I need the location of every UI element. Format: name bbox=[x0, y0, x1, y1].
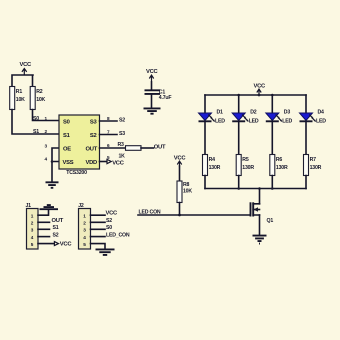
wire J2 pin3 bbox=[91, 228, 106, 230]
svg-text:S0: S0 bbox=[106, 225, 112, 231]
svg-text:S2: S2 bbox=[119, 117, 125, 123]
ground (J1 pin1, flipped) bbox=[40, 205, 59, 209]
svg-text:D4: D4 bbox=[318, 110, 325, 116]
resistor R7 bbox=[304, 155, 322, 176]
wire LED top rail bbox=[205, 94, 306, 96]
wire Q1 source to ground bbox=[259, 215, 261, 235]
svg-text:10K: 10K bbox=[36, 97, 45, 103]
wire col4 mid bbox=[305, 122, 307, 155]
wire col3 top bbox=[271, 95, 273, 113]
resistor R3 bbox=[118, 142, 142, 159]
svg-text:LED CON: LED CON bbox=[139, 210, 161, 216]
svg-text:Q1: Q1 bbox=[267, 218, 274, 224]
IC U1 TCS3200 bbox=[59, 115, 100, 176]
wire IC pin 8 bbox=[100, 120, 118, 122]
svg-text:VSS: VSS bbox=[63, 160, 74, 166]
wire J1 pin4 bbox=[38, 236, 50, 238]
svg-text:S3: S3 bbox=[90, 120, 98, 126]
svg-text:OUT: OUT bbox=[154, 145, 166, 151]
wire IC pin 6 to R3 bbox=[100, 147, 126, 149]
wire col2 top bbox=[238, 95, 240, 113]
capacitor C1 4.7uF bbox=[145, 89, 172, 101]
svg-text:VCC: VCC bbox=[146, 69, 159, 75]
svg-text:130R: 130R bbox=[276, 165, 288, 171]
wire IC pin 7 bbox=[100, 134, 118, 136]
resistor R8 bbox=[177, 181, 192, 203]
svg-text:VDD: VDD bbox=[86, 160, 98, 166]
svg-text:R4: R4 bbox=[209, 157, 216, 163]
svg-text:S2: S2 bbox=[90, 133, 97, 139]
wire J2 pin2 bbox=[91, 221, 106, 223]
wire col3 mid bbox=[271, 122, 273, 155]
svg-text:4.7uF: 4.7uF bbox=[159, 95, 172, 101]
resistor R6 bbox=[270, 155, 288, 176]
svg-text:D2: D2 bbox=[250, 110, 257, 116]
resistor R1 bbox=[10, 87, 25, 110]
power VCC flag (R8) bbox=[174, 156, 187, 167]
svg-text:7: 7 bbox=[107, 129, 110, 134]
svg-text:OE: OE bbox=[63, 147, 71, 153]
junction top rail col2 bbox=[237, 94, 240, 97]
wire J2 pin4 bbox=[91, 236, 106, 238]
wire J1 pin5 to VCC bbox=[38, 243, 54, 245]
wire VCC rail to R1/R2 tops bbox=[12, 75, 33, 87]
wire IC pin 4 VSS to ground bbox=[52, 162, 59, 182]
wire VCC to R8 bbox=[179, 166, 181, 181]
svg-text:VCC: VCC bbox=[174, 156, 187, 162]
svg-text:D1: D1 bbox=[217, 110, 224, 116]
svg-text:R2: R2 bbox=[36, 89, 43, 95]
svg-text:VCC: VCC bbox=[254, 83, 267, 89]
junction bottom rail col3 bbox=[271, 187, 274, 190]
wire col1 bottom bbox=[204, 176, 206, 189]
wire R3 to OUT bbox=[141, 147, 154, 149]
wire col2 mid bbox=[238, 122, 240, 155]
svg-text:4: 4 bbox=[45, 157, 48, 162]
LED D4 bbox=[300, 110, 327, 125]
svg-text:R8: R8 bbox=[183, 182, 190, 188]
ground (C1) bbox=[144, 108, 161, 113]
svg-text:S3: S3 bbox=[119, 131, 125, 137]
ground (J2 pin5) bbox=[96, 249, 115, 255]
power VCC flag (LED rail) bbox=[254, 83, 267, 95]
junction bottom rail drain bbox=[258, 187, 261, 190]
wire C1 to ground bbox=[151, 94, 153, 108]
svg-text:R5: R5 bbox=[242, 157, 249, 163]
svg-text:LED: LED bbox=[249, 118, 259, 124]
svg-text:TCS3200: TCS3200 bbox=[66, 170, 87, 176]
svg-text:VCC: VCC bbox=[112, 160, 125, 166]
wire R1 to IC pin 2 bbox=[12, 110, 59, 135]
resistor R2 bbox=[30, 87, 45, 110]
power VCC arrow (IC pin 5 VDD) bbox=[100, 159, 125, 166]
svg-text:S2: S2 bbox=[53, 232, 59, 238]
svg-text:S1: S1 bbox=[63, 133, 71, 139]
svg-text:10K: 10K bbox=[16, 97, 25, 103]
connector J2 bbox=[78, 203, 90, 249]
junction OE/VSS bbox=[51, 160, 54, 163]
svg-text:S1: S1 bbox=[33, 129, 39, 135]
svg-text:LED: LED bbox=[282, 118, 292, 124]
wire col3 bottom bbox=[271, 176, 273, 189]
wire J2 pin1 bbox=[91, 214, 106, 216]
wire R8 to LED_CON bbox=[179, 203, 181, 216]
svg-text:LED: LED bbox=[215, 118, 225, 124]
LED D2 bbox=[232, 110, 259, 125]
svg-text:LED: LED bbox=[316, 118, 326, 124]
wire Q1 drain bbox=[259, 189, 261, 204]
svg-text:R3: R3 bbox=[118, 142, 125, 148]
svg-text:VCC: VCC bbox=[106, 210, 119, 216]
junction VCC / top rail bbox=[258, 94, 261, 97]
LED D1 bbox=[199, 110, 226, 125]
svg-text:10K: 10K bbox=[183, 188, 192, 194]
svg-text:VCC: VCC bbox=[20, 62, 33, 68]
power VCC arrow (J1 pin5) bbox=[54, 242, 72, 248]
svg-text:S1: S1 bbox=[53, 225, 59, 231]
wire IC pin 3 OE to ground bbox=[52, 148, 59, 162]
wire VCC to C1 bbox=[151, 82, 153, 90]
transistor Q1 (N-MOSFET) bbox=[251, 202, 274, 224]
LED D3 bbox=[266, 110, 293, 125]
junction R8 / LED_CON bbox=[178, 214, 181, 217]
svg-text:S0: S0 bbox=[63, 120, 70, 126]
wire col4 bottom bbox=[305, 176, 307, 189]
svg-text:1K: 1K bbox=[119, 154, 126, 160]
connector J1 bbox=[26, 203, 39, 249]
wire J1 pin2 bbox=[38, 221, 50, 223]
junction top rail col3 bbox=[271, 94, 274, 97]
svg-text:VCC: VCC bbox=[60, 242, 73, 248]
wire net LED_CON to Q1 gate bbox=[138, 214, 250, 216]
svg-text:OUT: OUT bbox=[86, 147, 98, 153]
wire col2 bottom bbox=[238, 176, 240, 189]
wire LED bottom rail bbox=[205, 188, 306, 190]
wire J2 pin5 to ground bbox=[91, 244, 106, 249]
ground (IC VSS) bbox=[46, 182, 59, 188]
svg-text:130R: 130R bbox=[242, 165, 254, 171]
svg-text:3: 3 bbox=[45, 143, 48, 148]
svg-text:OUT: OUT bbox=[52, 218, 64, 224]
svg-text:D3: D3 bbox=[284, 110, 291, 116]
junction bottom rail col2 bbox=[237, 187, 240, 190]
svg-text:130R: 130R bbox=[310, 165, 322, 171]
power VCC flag (pull-up rail) bbox=[20, 62, 33, 75]
wire J1 pin3 bbox=[38, 228, 50, 230]
wire col1 top bbox=[204, 95, 206, 113]
resistor R4 bbox=[203, 155, 221, 176]
svg-text:R7: R7 bbox=[310, 157, 317, 163]
wire R2 to IC pin 1 bbox=[33, 110, 60, 121]
svg-text:S2: S2 bbox=[106, 218, 112, 224]
svg-text:130R: 130R bbox=[209, 165, 221, 171]
power VCC flag (C1) bbox=[146, 69, 159, 82]
resistor R5 bbox=[236, 155, 254, 176]
wire col4 top bbox=[305, 95, 307, 113]
svg-text:S0: S0 bbox=[33, 116, 39, 122]
svg-text:R1: R1 bbox=[16, 89, 23, 95]
svg-text:6: 6 bbox=[107, 143, 110, 148]
svg-text:5: 5 bbox=[107, 155, 110, 160]
ground (Q1 source) bbox=[253, 236, 267, 244]
wire J1 pin1 to ground bbox=[38, 210, 49, 215]
wire col1 mid bbox=[204, 122, 206, 155]
svg-text:R6: R6 bbox=[276, 157, 283, 163]
svg-text:LED_CON: LED_CON bbox=[106, 232, 130, 238]
svg-text:8: 8 bbox=[107, 116, 110, 121]
